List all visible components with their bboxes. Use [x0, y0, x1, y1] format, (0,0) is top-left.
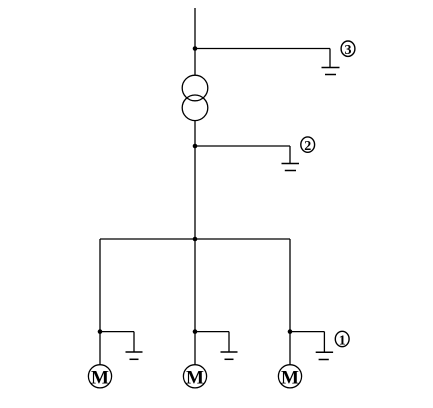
wire: vertical drop to ground 2 — [289, 146, 291, 164]
wire: middle ground drop — [228, 332, 230, 352]
wire: incoming feeder vertical top — [194, 8, 196, 75]
node: junction of branch 2 — [193, 144, 198, 149]
node: middle feeder junction — [193, 329, 198, 334]
wire: left stub to ground — [100, 331, 134, 333]
transformer T1: secondary winding — [182, 95, 208, 121]
ground: earth symbol middle motor — [221, 352, 238, 359]
wire: left ground drop — [133, 332, 135, 352]
svg-text:M: M — [281, 367, 299, 388]
ground: earth symbol right motor — [316, 352, 333, 359]
wire: left feeder vertical — [99, 239, 101, 365]
wire: vertical drop to ground 3 — [329, 49, 331, 68]
node: bus junction — [193, 237, 198, 242]
node: left feeder junction — [98, 329, 103, 334]
ground: earth symbol left motor — [126, 352, 143, 359]
label: circled 2 — [301, 137, 315, 154]
svg-text:2: 2 — [304, 139, 311, 154]
wire: right feeder vertical — [289, 239, 291, 365]
label: circled 3 — [341, 41, 355, 58]
wire: horizontal to ground 2 — [195, 145, 290, 147]
transformer T1: primary winding — [182, 75, 208, 101]
label: circled 1 — [335, 331, 349, 348]
svg-text:M: M — [186, 367, 204, 388]
motor M2 — [183, 365, 206, 389]
svg-text:1: 1 — [339, 334, 346, 349]
motor M3 — [278, 365, 301, 389]
ground: earth symbol 3 — [322, 68, 340, 75]
motor M1 — [88, 365, 111, 389]
svg-text:M: M — [91, 367, 109, 388]
wire: bus bar horizontal — [100, 238, 290, 240]
wire: horizontal to ground 3 — [195, 48, 330, 50]
wire: right ground drop — [323, 332, 325, 353]
wire: right stub to ground — [290, 331, 324, 333]
svg-text:3: 3 — [345, 43, 352, 58]
ground: earth symbol 2 — [282, 164, 300, 171]
node: right feeder junction — [288, 329, 293, 334]
wire: middle feeder vertical — [194, 239, 196, 365]
wire: middle stub to ground — [195, 331, 229, 333]
wire: vertical from transformer to bus — [194, 121, 196, 239]
node: junction of branch 3 — [193, 46, 198, 51]
